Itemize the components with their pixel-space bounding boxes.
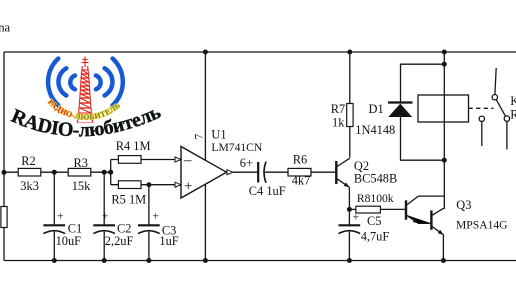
svg-text:4k7: 4k7 xyxy=(292,173,311,187)
svg-text:–: – xyxy=(183,152,192,168)
wire relay rail lower xyxy=(443,122,445,209)
svg-text:D1: D1 xyxy=(369,102,384,116)
capacitor C1 xyxy=(43,211,82,249)
wire Q2 emitter down xyxy=(348,188,350,210)
resistor R4 xyxy=(116,139,151,163)
resistor R5 xyxy=(111,181,146,207)
wire C2 vertical xyxy=(103,172,105,225)
wire op-amp pin7 xyxy=(204,52,206,160)
wire relay rail upper xyxy=(443,52,445,95)
svg-text:+: + xyxy=(57,211,64,223)
wire op-amp output to C4 xyxy=(233,171,258,173)
logo red tower xyxy=(77,57,93,124)
relay K1 coil box xyxy=(418,95,469,122)
svg-text:R4 1M: R4 1M xyxy=(116,139,151,153)
resistor R8 xyxy=(356,192,394,213)
node junction dots xyxy=(2,50,447,264)
svg-text:K1: K1 xyxy=(510,94,516,108)
svg-text:3k3: 3k3 xyxy=(20,179,39,193)
wire R4 row xyxy=(111,159,176,161)
wire C1 vertical xyxy=(53,172,55,225)
wire R8 to Q3 base xyxy=(380,208,406,210)
resistor R7 (vertical) xyxy=(331,102,353,129)
wire switch lever lead xyxy=(506,122,508,150)
resistor R3 xyxy=(68,156,91,193)
wire D1 branch bottom xyxy=(401,117,445,160)
transistor Q2 xyxy=(336,158,397,187)
wire op-amp pin4 xyxy=(204,184,206,260)
svg-text:Q3: Q3 xyxy=(456,198,471,212)
RADIO-lyubitel logo xyxy=(8,57,164,142)
svg-text:+: + xyxy=(184,178,192,194)
svg-text:BC548B: BC548B xyxy=(354,172,397,186)
capacitor C2 xyxy=(93,211,133,249)
svg-text:1uF: 1uF xyxy=(159,234,178,248)
wire switch left contact lead xyxy=(481,122,483,146)
output arrow xyxy=(227,170,233,175)
logo blue arcs xyxy=(48,59,123,106)
wire R7 top to rail xyxy=(349,52,351,104)
svg-text:na: na xyxy=(0,21,10,35)
svg-text:+: + xyxy=(102,211,109,223)
svg-text:1N4148: 1N4148 xyxy=(355,123,395,137)
svg-text:C4 1uF: C4 1uF xyxy=(249,184,286,198)
wire R7 bottom to Q2 collector xyxy=(349,127,351,158)
relay actuation dashed link xyxy=(469,107,494,109)
svg-text:R7: R7 xyxy=(331,102,345,116)
wire bottom rail xyxy=(4,260,516,262)
input arrow minus xyxy=(175,157,181,162)
wire relay rail through box xyxy=(443,95,445,122)
svg-text:R5 1M: R5 1M xyxy=(111,193,146,207)
transistor Q3 (Darlington MPSA14G) xyxy=(406,196,508,235)
wire Q2 emitter node to R8 xyxy=(349,208,356,210)
input arrow plus xyxy=(175,182,181,187)
wire R5 row xyxy=(111,184,176,186)
svg-text:2,2uF: 2,2uF xyxy=(105,234,134,248)
wire C3 vertical xyxy=(148,185,150,226)
svg-text:LM741CN: LM741CN xyxy=(211,141,263,154)
svg-text:R6: R6 xyxy=(293,153,307,167)
resistor R1 (vertical, left edge) xyxy=(1,207,7,228)
capacitor C5 xyxy=(339,212,390,244)
wire Q3 T2 emitter down xyxy=(442,235,444,261)
wire switch top lead xyxy=(495,68,496,94)
svg-text:+: + xyxy=(353,212,360,224)
svg-text:MPSA14G: MPSA14G xyxy=(456,218,508,231)
switch contact K1 xyxy=(479,95,510,122)
resistor R6 xyxy=(288,153,311,188)
svg-text:R8100k: R8100k xyxy=(357,192,394,205)
svg-text:6+: 6+ xyxy=(240,156,253,170)
svg-text:1k: 1k xyxy=(332,116,345,130)
svg-text:7: 7 xyxy=(194,134,206,140)
wire left rail xyxy=(3,52,5,261)
wire top rail xyxy=(4,51,516,53)
svg-text:R2: R2 xyxy=(21,154,35,168)
op-amp U1 xyxy=(175,128,263,198)
wire D1 branch top xyxy=(401,64,445,102)
svg-text:R1: R1 xyxy=(510,108,516,122)
resistor R2 xyxy=(18,154,41,193)
wire Q3 collector T1 xyxy=(418,195,443,197)
wire R6 to Q2 base xyxy=(311,171,336,173)
wire mid row input xyxy=(4,171,111,173)
wire R4/R5 branch vertical xyxy=(110,160,112,185)
svg-text:R3: R3 xyxy=(74,156,88,170)
svg-text:15k: 15k xyxy=(72,179,91,193)
wire C4 to R6 xyxy=(265,171,288,173)
capacitor C4 (horizontal) xyxy=(249,162,286,198)
capacitor C3 xyxy=(138,211,179,249)
svg-text:U1: U1 xyxy=(211,128,226,142)
wire C5 vertical xyxy=(348,209,350,225)
svg-text:+: + xyxy=(153,211,160,223)
svg-text:C5: C5 xyxy=(367,214,381,228)
diode D1 1N4148 xyxy=(355,102,412,137)
svg-text:4,7uF: 4,7uF xyxy=(361,229,390,243)
svg-text:10uF: 10uF xyxy=(56,234,82,248)
relay coil wire through box xyxy=(443,95,445,122)
